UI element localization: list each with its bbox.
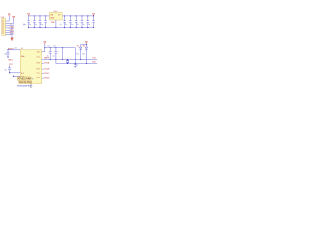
svg-text:.1u: .1u xyxy=(65,24,67,26)
svg-text:C1: C1 xyxy=(48,45,50,47)
U1 right side network xyxy=(42,41,97,79)
svg-text:PD6/D: PD6/D xyxy=(44,78,50,80)
supply arrow VUSB2 xyxy=(13,19,15,24)
capacitor C3 xyxy=(39,16,42,28)
microcontroller U1 xyxy=(20,48,41,84)
LED column 2 xyxy=(85,45,87,64)
svg-text:RXD: RXD xyxy=(92,62,96,64)
crystal Y1 xyxy=(66,59,69,63)
svg-text:C4: C4 xyxy=(4,54,6,56)
capacitor C9 xyxy=(87,16,90,28)
capacitor C4 xyxy=(44,16,47,28)
right pin label row 1 xyxy=(42,62,44,64)
svg-text:ATMEGA48PB-M: ATMEGA48PB-M xyxy=(17,84,31,87)
svg-text:LM117: LM117 xyxy=(53,11,58,13)
net wire A (TXD) xyxy=(42,58,97,60)
U1 left side network xyxy=(4,48,20,77)
capacitor C6 xyxy=(69,16,72,28)
svg-text:PD5: PD5 xyxy=(37,77,40,79)
svg-text:D2: D2 xyxy=(83,53,85,55)
wire to pin xyxy=(10,72,21,74)
svg-text:PD5/C: PD5/C xyxy=(44,73,50,75)
LED D1 xyxy=(79,47,81,50)
svg-text:USB: USB xyxy=(1,17,4,19)
svg-text:TXD: TXD xyxy=(92,57,96,59)
ground arrow GND1 xyxy=(11,35,13,38)
svg-text:.1u: .1u xyxy=(88,24,90,26)
USB connector J1 xyxy=(1,14,25,41)
capacitor C10 xyxy=(92,16,95,28)
pin 6 wire xyxy=(6,32,10,34)
wire rail right xyxy=(62,15,93,17)
wire AVCC drop xyxy=(61,48,63,60)
supply arrow VCC4 xyxy=(85,44,87,45)
svg-text:.1u: .1u xyxy=(52,56,54,58)
right pin label row 4 xyxy=(42,77,44,79)
svg-text:PD0: PD0 xyxy=(37,62,40,64)
svg-text:.1u: .1u xyxy=(47,56,49,58)
svg-text:PD4/B: PD4/B xyxy=(44,69,50,71)
top power rail section xyxy=(27,13,94,27)
svg-text:.1u: .1u xyxy=(71,24,73,26)
wire rail left xyxy=(29,15,50,17)
svg-text:Y2: Y2 xyxy=(76,65,78,67)
svg-text:.1u: .1u xyxy=(59,24,61,26)
capacitor C1 xyxy=(27,16,30,28)
svg-text:C5: C5 xyxy=(15,48,17,50)
capacitor C14 xyxy=(54,48,57,60)
supply arrow VBUS xyxy=(8,16,10,21)
capacitor C7 xyxy=(75,16,78,28)
svg-text:D1: D1 xyxy=(77,53,79,55)
svg-text:.1u: .1u xyxy=(82,24,84,26)
ground symbol GND2 xyxy=(30,84,33,88)
capacitor C2 xyxy=(33,16,36,28)
pin 7 wire xyxy=(6,34,13,36)
wire ground bus xyxy=(29,27,94,29)
wire pin stub xyxy=(14,75,21,77)
svg-text:MLF32-PAD: MLF32-PAD xyxy=(19,81,32,84)
U1 value labels bottom left xyxy=(17,77,33,87)
capacitor C12 xyxy=(8,67,11,73)
svg-text:10u: 10u xyxy=(40,24,43,26)
svg-text:GND1: GND1 xyxy=(8,60,13,62)
right pin label row 3 xyxy=(42,72,44,74)
bypass capacitor group left xyxy=(23,15,47,28)
capacitor C15 xyxy=(74,64,77,68)
pin 2 wire xyxy=(6,22,14,24)
wire LED top xyxy=(81,44,87,46)
LED D2 xyxy=(85,47,87,50)
voltage regulator U2 xyxy=(49,11,62,28)
svg-text:C2: C2 xyxy=(53,45,55,47)
svg-text:.1u: .1u xyxy=(29,24,31,26)
LED column 1 xyxy=(80,45,82,60)
supply arrow VCC3 xyxy=(44,41,46,43)
svg-text:R2: R2 xyxy=(83,46,85,48)
capacitor C13 xyxy=(49,48,52,60)
svg-text:GND: GND xyxy=(51,22,56,24)
svg-text:R1: R1 xyxy=(77,46,79,48)
svg-text:C3: C3 xyxy=(4,69,6,71)
svg-text:U1: U1 xyxy=(21,48,23,50)
pin 5 wire xyxy=(6,29,10,31)
capacitor C5 xyxy=(63,16,66,28)
svg-text:PD2: PD2 xyxy=(37,68,40,70)
svg-text:.1u: .1u xyxy=(35,24,37,26)
svg-text:VBUS: VBUS xyxy=(10,25,14,27)
value box 2 xyxy=(19,80,32,83)
svg-text:PD2/A: PD2/A xyxy=(44,62,50,65)
pin 3 wire xyxy=(6,25,10,27)
right pin label row 2 xyxy=(42,68,44,70)
wire VCC pin xyxy=(42,44,76,52)
svg-text:PB0: PB0 xyxy=(37,57,40,59)
bypass capacitor group right xyxy=(59,15,95,28)
capacitor C8 xyxy=(81,16,84,28)
svg-text:.1u: .1u xyxy=(77,24,79,26)
supply arrow VCC2 xyxy=(92,13,94,15)
svg-text:PD4: PD4 xyxy=(37,73,40,75)
wire reset xyxy=(8,49,20,51)
pin 1 wire xyxy=(6,20,10,22)
supply arrow VCC1 xyxy=(27,13,29,15)
wire right edge drop xyxy=(74,48,76,64)
value box 1 xyxy=(17,77,30,80)
net wire B (RXD) xyxy=(56,59,97,63)
node dot xyxy=(28,27,29,28)
wire DTR stem xyxy=(9,65,11,68)
pin 4 wire xyxy=(6,27,10,29)
wire regulator ground stem xyxy=(55,20,57,28)
capacitor C11 xyxy=(7,50,10,57)
